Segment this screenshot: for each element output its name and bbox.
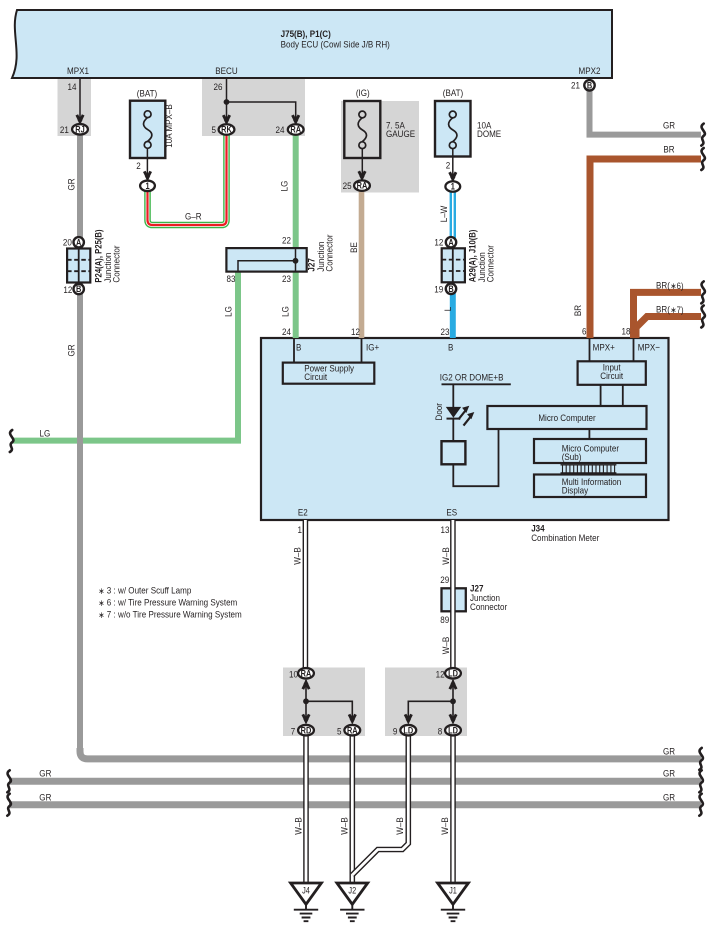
label Circuit — [304, 371, 327, 382]
junction connector A29(A) J10(B) — [442, 248, 465, 282]
svg-text:BECU: BECU — [215, 65, 237, 76]
label J27 — [470, 583, 484, 594]
label IG2 OR DOME+B — [440, 372, 504, 383]
grey shade BECU pin area — [202, 78, 305, 136]
label 25 — [343, 181, 352, 192]
junction connector labels A29/J10 — [434, 237, 443, 248]
label Power Supply — [304, 363, 354, 374]
svg-text:J2: J2 — [348, 886, 356, 896]
arrow into RA 24 — [293, 115, 299, 125]
label J75(B), P1(C) — [281, 29, 331, 40]
label ∗6) — [670, 280, 683, 291]
svg-text:MPX+: MPX+ — [593, 342, 615, 353]
label 89 — [440, 615, 449, 626]
ground J2 — [337, 883, 368, 904]
svg-text:(IG): (IG) — [356, 87, 370, 98]
label BR( — [656, 280, 670, 291]
svg-text:J1: J1 — [449, 886, 457, 896]
fuse 7.5A GAUGE — [344, 101, 380, 158]
junction connector J27 22/83/23 — [226, 248, 306, 272]
oval 7 RD — [298, 725, 314, 736]
label 12 — [63, 284, 72, 295]
label ∗7) — [670, 304, 683, 315]
break symbol BR*7 right — [701, 306, 705, 328]
bottom connector pin numbers — [289, 669, 298, 680]
label 9 — [393, 726, 398, 737]
J34 combination meter box — [261, 338, 669, 520]
break symbol bar3 left — [7, 794, 11, 816]
label Body ECU (Cowl Side J/B RH) — [281, 39, 390, 50]
grey shade bottom-left connector group — [283, 668, 365, 737]
label Multi Information — [562, 476, 622, 487]
arrow into RA 25 — [359, 171, 365, 181]
label 10A MPX–B — [163, 104, 174, 148]
break symbol bar1 right — [699, 748, 703, 770]
wire W-B oval 8 to ground J1 — [450, 735, 456, 883]
svg-text:19: 19 — [434, 284, 443, 295]
arrow down into oval 8 — [450, 714, 456, 724]
label MPX2 — [579, 65, 601, 76]
svg-text:12: 12 — [436, 669, 445, 680]
svg-text:7: 7 — [291, 726, 296, 737]
door LED indicator — [446, 384, 475, 441]
svg-text:GR: GR — [663, 768, 675, 779]
oval 21 RJ — [72, 124, 88, 135]
label Junction — [476, 252, 487, 282]
label LG — [279, 181, 290, 192]
label B — [448, 342, 453, 353]
svg-text:J4: J4 — [302, 886, 310, 896]
svg-text:6 : w/ Tire Pressure Warning S: 6 : w/ Tire Pressure Warning System — [107, 597, 237, 608]
label ∗ — [98, 598, 104, 608]
ribbon connector between sub and display — [561, 465, 617, 473]
fuse labels — [137, 88, 157, 99]
door switch sense box — [442, 441, 466, 464]
svg-text:RJ: RJ — [75, 125, 84, 135]
wire colour labels — [66, 178, 77, 190]
svg-text:RA: RA — [347, 726, 358, 736]
oval dome output 1 — [445, 181, 460, 192]
oval 5 RK — [219, 124, 235, 135]
J34 combination meter label — [531, 523, 545, 534]
label W–B — [339, 817, 350, 835]
label P24(A), P25(B) — [93, 229, 104, 282]
svg-text:∗7): ∗7) — [670, 304, 683, 315]
label BE — [348, 242, 359, 253]
circle P24 A — [74, 237, 84, 247]
label 7 : w/o Tire Pressure Warning System — [107, 609, 242, 620]
arrow into RK — [223, 115, 229, 125]
label W–B — [440, 637, 451, 655]
svg-text:GAUGE: GAUGE — [386, 128, 415, 139]
svg-text:Micro Computer: Micro Computer — [538, 412, 595, 423]
label BR( — [656, 304, 670, 315]
label L–W — [438, 205, 449, 222]
svg-text:Body ECU (Cowl Side J/B RH): Body ECU (Cowl Side J/B RH) — [281, 39, 390, 50]
label 21 — [571, 80, 580, 91]
svg-text:9: 9 — [393, 726, 398, 737]
wire GR from MPX1 down left side — [77, 131, 83, 750]
svg-text:RA: RA — [301, 669, 312, 679]
oval 25 RA — [354, 180, 370, 191]
svg-text:12: 12 — [434, 237, 443, 248]
svg-text:(Sub): (Sub) — [562, 451, 582, 462]
svg-text:83: 83 — [227, 273, 236, 284]
label Junction — [470, 592, 500, 603]
label Connector — [111, 245, 122, 282]
label (Sub) — [562, 451, 582, 462]
wire GR bar 2 — [9, 778, 701, 785]
svg-text:1: 1 — [145, 181, 150, 191]
svg-text:18: 18 — [622, 326, 631, 337]
label A29(A), J10(B) — [467, 229, 478, 282]
label 6 — [582, 326, 587, 337]
node IG2 OR DOME+B — [442, 383, 511, 385]
wire W-B E2 to oval 10 — [303, 520, 309, 668]
label 23 — [441, 326, 450, 337]
oval 8 LD — [445, 725, 461, 736]
svg-text:A: A — [76, 238, 81, 248]
svg-text:GR: GR — [66, 344, 77, 356]
svg-text:W–B: W–B — [293, 817, 304, 835]
arrow up into oval 12 — [450, 679, 456, 689]
label B — [296, 342, 301, 353]
W-B labels — [292, 547, 303, 565]
svg-text:W–B: W–B — [440, 637, 451, 655]
label Micro Computer — [538, 412, 595, 423]
svg-text:(BAT): (BAT) — [443, 87, 463, 98]
label GR — [66, 344, 77, 356]
svg-text:(BAT): (BAT) — [137, 88, 157, 99]
label 19 — [434, 284, 443, 295]
label 24 — [276, 124, 285, 135]
svg-text:B: B — [76, 285, 81, 295]
E2/ES pin numbers — [298, 524, 303, 535]
svg-text:B: B — [296, 342, 301, 353]
svg-text:∗: ∗ — [98, 598, 104, 608]
power supply circuit box — [294, 339, 362, 363]
svg-text:LD: LD — [448, 726, 458, 736]
label 10A — [477, 120, 491, 131]
svg-text:MPX1: MPX1 — [67, 65, 89, 76]
svg-text:25: 25 — [343, 181, 352, 192]
svg-text:RA: RA — [357, 181, 368, 191]
micro computer sub box — [588, 429, 590, 439]
label BR — [663, 144, 674, 155]
J27 29/89 labels — [440, 575, 449, 586]
svg-text:GR: GR — [663, 792, 675, 803]
wire BE from gauge fuse to meter IG+ — [359, 189, 365, 338]
circle MPX2 21 B — [584, 80, 594, 90]
svg-text:B: B — [448, 342, 453, 353]
label J4 — [302, 886, 310, 896]
svg-text:21: 21 — [60, 124, 69, 135]
circle A29 A — [446, 237, 456, 247]
oval 9 LD — [400, 725, 416, 736]
wire G-R fuse to BECU RK — [148, 133, 227, 225]
svg-text:ES: ES — [446, 507, 457, 518]
svg-text:Connector: Connector — [485, 245, 496, 282]
label Junction — [102, 253, 113, 283]
break symbol GR right — [701, 124, 705, 146]
svg-text:A: A — [448, 238, 453, 248]
pin stub BECU 26 with junction — [227, 79, 296, 119]
svg-text:E2: E2 — [298, 507, 308, 518]
arrow down into oval 9 — [405, 714, 411, 724]
arrow into RJ — [77, 115, 83, 125]
bottom-right junction lines — [408, 680, 453, 721]
svg-text:10A MPX–B: 10A MPX–B — [163, 104, 174, 148]
label Combination Meter — [531, 533, 599, 544]
svg-text:24: 24 — [282, 326, 291, 337]
svg-text:GR: GR — [663, 120, 675, 131]
label DOME — [477, 128, 501, 139]
wire W-B oval 7 to ground J4 — [303, 735, 309, 883]
svg-text:LD: LD — [403, 726, 413, 736]
label 7 — [291, 726, 296, 737]
micro computer box — [601, 385, 623, 406]
svg-text:29: 29 — [440, 575, 449, 586]
Body ECU bar J75(B) P1(C) — [12, 10, 612, 78]
grey shade IG fuse area — [341, 101, 419, 193]
junction connector J27 29/89 — [442, 588, 466, 611]
label Junction — [315, 242, 326, 272]
svg-text:13: 13 — [441, 524, 450, 535]
label Input — [603, 362, 621, 373]
svg-text:LG: LG — [279, 181, 290, 192]
input circuit box — [590, 339, 634, 361]
svg-text:IG+: IG+ — [366, 342, 379, 353]
wire BR to MPX+ pin 6 — [590, 159, 701, 338]
svg-text:∗: ∗ — [98, 586, 104, 596]
svg-text:W–B: W–B — [394, 817, 405, 835]
svg-text:BR(: BR( — [656, 280, 670, 291]
label MPX1 — [67, 65, 89, 76]
svg-text:20: 20 — [63, 237, 72, 248]
svg-text:LD: LD — [448, 669, 458, 679]
wire GR bar 3 — [9, 801, 701, 808]
svg-text:22: 22 — [282, 235, 291, 246]
label 13 — [441, 524, 450, 535]
label 5 — [212, 124, 217, 135]
junction connector labels P24/P25 — [63, 237, 72, 248]
svg-text:7 : w/o Tire Pressure Warning: 7 : w/o Tire Pressure Warning System — [107, 609, 242, 620]
svg-text:RA: RA — [290, 125, 301, 135]
label GR — [39, 792, 51, 803]
svg-text:23: 23 — [282, 273, 291, 284]
label Connector — [324, 234, 335, 271]
svg-text:89: 89 — [440, 615, 449, 626]
svg-text:23: 23 — [441, 326, 450, 337]
svg-text:21: 21 — [571, 80, 580, 91]
label GAUGE — [386, 128, 415, 139]
label 6 : w/ Tire Pressure Warning System — [107, 597, 237, 608]
wire BR(*7) joining pin 18 — [636, 317, 701, 339]
label E2 — [298, 507, 308, 518]
label GR — [663, 120, 675, 131]
junction connector P24(A) P25(B) — [67, 249, 90, 283]
wire LG from J27 pin 83 to left break — [12, 270, 238, 441]
arrow up into oval 10 — [303, 679, 309, 689]
label LG — [40, 428, 51, 439]
svg-text:Door: Door — [433, 403, 444, 421]
label W–B — [394, 817, 405, 835]
label BR — [572, 305, 583, 316]
label 8 — [438, 726, 443, 737]
label GR — [663, 746, 675, 757]
svg-text:MPX2: MPX2 — [579, 65, 601, 76]
break symbol bar2 left — [7, 770, 11, 792]
oval fuse output 1 — [140, 181, 155, 192]
label L — [443, 307, 454, 312]
svg-text:DOME: DOME — [477, 128, 501, 139]
grey shade bottom-right connector group — [385, 668, 467, 737]
label 26 — [214, 81, 223, 92]
oval 24 RA — [288, 124, 304, 135]
pin stub MPX1 14 — [79, 79, 81, 119]
svg-text:5: 5 — [337, 726, 342, 737]
svg-text:BR: BR — [663, 144, 674, 155]
svg-text:Connector: Connector — [111, 245, 122, 282]
svg-text:LG: LG — [223, 306, 234, 317]
label J1 — [449, 886, 457, 896]
bottom GR labels — [39, 768, 51, 779]
wire L-W from dome fuse to A29 — [450, 191, 456, 238]
label MPX− — [638, 342, 660, 353]
arrow into fuse output 1 — [144, 171, 150, 181]
label Door — [433, 403, 444, 421]
ground J1 — [438, 883, 469, 904]
svg-text:GR: GR — [39, 792, 51, 803]
circle A29 B — [446, 284, 456, 294]
svg-text:BR(: BR( — [656, 304, 670, 315]
label ES — [446, 507, 457, 518]
label Micro Computer — [562, 443, 619, 454]
pin number labels — [68, 81, 77, 92]
svg-text:LG: LG — [280, 306, 291, 317]
svg-text:1: 1 — [298, 524, 303, 535]
svg-text:12: 12 — [63, 284, 72, 295]
svg-text:BE: BE — [348, 242, 359, 253]
label J2 — [348, 886, 356, 896]
svg-text:3 : w/ Outer Scuff Lamp: 3 : w/ Outer Scuff Lamp — [107, 585, 192, 596]
oval 5 RA — [344, 725, 360, 736]
wire L from A29 to meter B — [450, 293, 456, 338]
break symbol LG left — [10, 430, 14, 452]
label Connector — [470, 601, 507, 612]
svg-text:Combination Meter: Combination Meter — [531, 533, 599, 544]
circle P24 B — [74, 284, 84, 294]
svg-text:B: B — [448, 284, 453, 294]
svg-text:W–B: W–B — [439, 817, 450, 835]
svg-text:L: L — [443, 307, 454, 312]
svg-text:Connector: Connector — [324, 234, 335, 271]
arrow down into oval 5 — [349, 714, 355, 724]
label 83 — [227, 273, 236, 284]
svg-text:BR: BR — [572, 305, 583, 316]
bottom-left junction lines — [306, 680, 352, 721]
label W–B — [293, 817, 304, 835]
fuse 10A MPX-B — [130, 101, 165, 158]
break symbol BR right — [701, 148, 705, 170]
label LG — [280, 306, 291, 317]
label W–B — [440, 547, 451, 565]
label 24 — [282, 326, 291, 337]
svg-text:Display: Display — [562, 485, 589, 496]
svg-text:∗: ∗ — [98, 610, 104, 620]
svg-text:6: 6 — [582, 326, 587, 337]
label 23 — [282, 273, 291, 284]
svg-text:GR: GR — [66, 178, 77, 190]
svg-text:W–B: W–B — [339, 817, 350, 835]
svg-text:B: B — [587, 81, 592, 91]
svg-text:∗6): ∗6) — [670, 280, 683, 291]
svg-text:26: 26 — [214, 81, 223, 92]
grey shade MPX1 pin area — [58, 78, 92, 136]
wire BR(*6) to pin 18 — [634, 292, 702, 338]
arrow into dome output 1 — [450, 172, 456, 182]
label Display — [562, 485, 589, 496]
junction connector labels J27 — [282, 235, 291, 246]
break symbol bar2 right — [699, 770, 703, 792]
wire GR bar 1 — [80, 748, 701, 759]
svg-text:L–W: L–W — [438, 205, 449, 222]
label W–B — [439, 817, 450, 835]
label J27 — [306, 258, 317, 272]
svg-text:5: 5 — [212, 124, 217, 135]
svg-text:24: 24 — [276, 124, 285, 135]
label GR — [663, 768, 675, 779]
svg-text:RK: RK — [221, 125, 232, 135]
multi information display box — [534, 475, 646, 498]
svg-text:IG2 OR DOME+B: IG2 OR DOME+B — [440, 372, 504, 383]
svg-text:LG: LG — [40, 428, 51, 439]
break symbol BR*6 right — [701, 281, 705, 303]
break symbol bar3 right — [699, 794, 703, 816]
svg-text:GR: GR — [39, 768, 51, 779]
svg-text:10: 10 — [289, 669, 298, 680]
fuse 10A DOME — [435, 101, 471, 157]
wire W-B ES to oval 12 — [450, 520, 456, 668]
label 18 — [622, 326, 631, 337]
label GR — [663, 792, 675, 803]
label MPX+ — [593, 342, 615, 353]
label 7. 5A — [386, 120, 405, 131]
svg-text:Circuit: Circuit — [600, 370, 623, 381]
svg-text:MPX−: MPX− — [638, 342, 660, 353]
label (BAT) — [443, 87, 463, 98]
label 12 — [436, 669, 445, 680]
label Connector — [485, 245, 496, 282]
label LG — [223, 306, 234, 317]
label Circuit — [600, 370, 623, 381]
svg-text:RD: RD — [301, 726, 312, 736]
wire GR from MPX2 — [590, 91, 702, 135]
footnotes — [98, 586, 104, 596]
wire GR overpass at LG crossing — [77, 428, 83, 452]
arrow down into oval 7 — [303, 714, 309, 724]
svg-text:14: 14 — [68, 81, 77, 92]
svg-text:W–B: W–B — [440, 547, 451, 565]
label 2 — [136, 160, 141, 171]
svg-text:1: 1 — [451, 182, 456, 192]
wire W-B oval 5 to ground J2 — [349, 735, 355, 883]
label G–R — [185, 211, 202, 222]
label (IG) — [356, 87, 370, 98]
wire W-B oval 9 joining ground J2 — [352, 735, 408, 875]
label 21 — [60, 124, 69, 135]
svg-text:8: 8 — [438, 726, 443, 737]
